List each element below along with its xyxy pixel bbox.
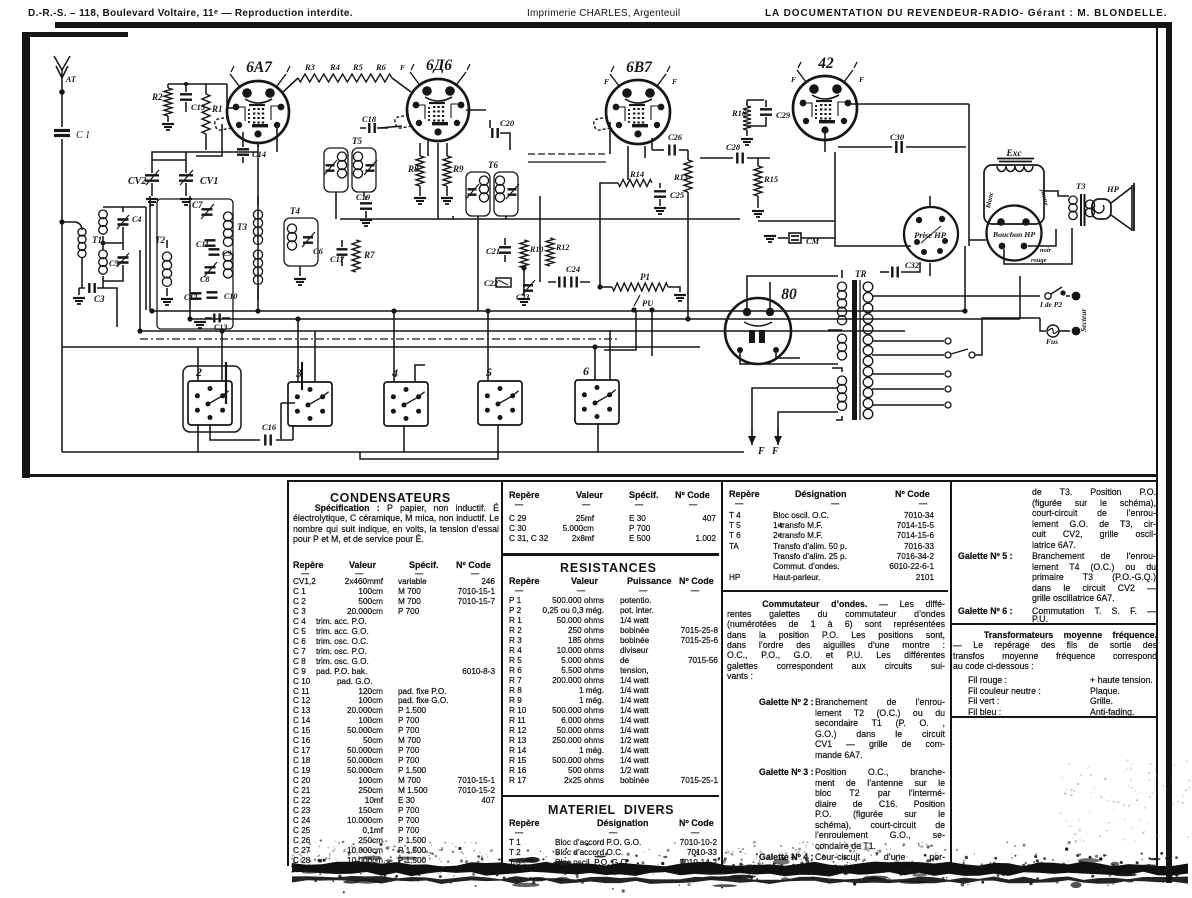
switch voltage selector (951, 318, 1040, 358)
wire R2/C15/R1 top (168, 84, 227, 150)
capacitor C10 (207, 292, 238, 301)
potentiometer P1 (600, 272, 686, 306)
wire wafer bottoms (198, 423, 598, 459)
variable capacitor CV2 (128, 160, 159, 205)
capacitor C16 (262, 422, 277, 446)
MATERIEL DIVERS table (548, 803, 674, 817)
wire 80 filament (740, 353, 838, 364)
capacitor C24 (548, 264, 590, 288)
Galette 4 (759, 852, 814, 862)
col2 rules (503, 553, 719, 556)
col3 rule (723, 590, 948, 592)
resistor R14 (618, 169, 652, 187)
wire tube pin drops (277, 122, 930, 311)
wire 80 plates (747, 276, 838, 308)
capacitor C7 (192, 200, 214, 219)
coil T2 (155, 235, 173, 305)
capacitor C5 (103, 243, 129, 281)
wire Prise HP top (905, 196, 930, 246)
wire CV drops (152, 152, 258, 160)
CONDENSATEURS table (330, 491, 451, 505)
capacitor C30 (838, 132, 966, 153)
field coil Exc (984, 149, 1050, 224)
Galette 2 (759, 697, 814, 707)
Galette 6 (958, 606, 1013, 616)
capacitor C8 (200, 262, 217, 284)
capacitor C1 (54, 92, 90, 452)
capacitor C6 (294, 232, 324, 285)
node F F arrows (748, 428, 782, 457)
switch wafer 4 (384, 366, 428, 426)
coil T3 (223, 212, 247, 278)
capacitor C3 (73, 283, 117, 327)
wire 6D6 grid cap to C18 (380, 126, 402, 128)
frame lines (55, 22, 1168, 29)
Galette 4 continuation (1032, 487, 1156, 497)
capacitor C17 (330, 240, 348, 266)
Commutateur d'ondes paragraph (727, 599, 945, 609)
header strip (28, 8, 353, 19)
wire AVC bus 1 (150, 310, 965, 312)
resistor R7 (352, 240, 375, 272)
wire 6A7 grid cap drop (196, 124, 222, 156)
table column borders (287, 482, 289, 866)
scan noise band bottom (292, 862, 1188, 877)
resistor R2 (151, 84, 174, 130)
schematic SVG placeholder (0, 0, 1192, 480)
tube 42 (791, 55, 864, 140)
speaker plug Bouchon HP (987, 206, 1042, 261)
capacitor C21 (486, 238, 511, 262)
MF transformer T6 (466, 160, 519, 216)
tube 80 (725, 286, 797, 364)
wire bus 3 (140, 330, 905, 332)
wire TA taps (872, 296, 1040, 405)
wire dashed bus (140, 338, 620, 340)
oscillator box T3 (157, 199, 233, 329)
resistor R15 (752, 158, 779, 217)
resistor R12 (546, 238, 569, 266)
coil T1 secondary (99, 207, 146, 310)
resistor R9 (441, 143, 464, 204)
resistor R16 (731, 100, 753, 145)
switch wafer 6 (575, 364, 619, 424)
MF transformer T5 (324, 136, 377, 192)
ground detector (518, 268, 530, 305)
wire rouge (969, 228, 1072, 264)
resistor chain R3 R4 R5 R6 (283, 62, 411, 92)
wire bus 4 (62, 346, 700, 348)
resistor R1 (202, 84, 223, 134)
resistor R8 (407, 143, 426, 204)
speaker HP (1092, 183, 1134, 231)
capacitor C15 (180, 84, 206, 112)
transformer TA (828, 269, 873, 420)
capacitor C11 (196, 240, 216, 249)
wire 6B7 grid lines (528, 153, 606, 155)
switch I de P2 (1039, 287, 1080, 309)
wire wafer 2 loop (183, 366, 241, 432)
capacitor C26 (652, 132, 688, 156)
wire MF drops (336, 192, 506, 219)
wire wafer 3 lead (281, 403, 295, 439)
Galette 3 (759, 767, 814, 777)
tube 6A7 (215, 59, 290, 143)
wire 6A7 cathode drop (257, 143, 259, 311)
node tap circles (945, 338, 951, 408)
wire wafer 2 lead (225, 362, 227, 404)
switch wafer 3 (288, 366, 332, 426)
wire AVC bus 2 (190, 318, 1020, 320)
capacitor C25 (654, 183, 685, 214)
RESISTANCES table (560, 561, 657, 575)
tube 6D6 (395, 57, 470, 141)
node PU (631, 298, 654, 313)
capacitor C12 (184, 293, 202, 302)
wire filament F F (752, 388, 838, 428)
T4-HP table (729, 488, 944, 490)
tube 6B7 (594, 59, 677, 144)
capacitor C23 (516, 280, 535, 302)
capacitor C22 (484, 278, 511, 288)
transformer T3 (1044, 181, 1094, 226)
switch wafer 5 (478, 365, 522, 425)
capacitor C32 (880, 260, 920, 278)
node junction dots (137, 265, 967, 349)
variable capacitor CV1 (179, 160, 218, 205)
socket Prise HP (904, 207, 958, 261)
antenna AT (54, 56, 77, 95)
wire wafer leads (198, 310, 652, 382)
capacitor C19 (356, 192, 372, 226)
coil T4 (284, 206, 318, 266)
wire bus drops (140, 196, 1020, 331)
fuse Fus (1040, 318, 1080, 346)
capacitor C13 (194, 314, 230, 333)
coil osc secondary (253, 196, 262, 300)
wire 6A7 left pin (227, 84, 236, 108)
capacitor C14 (237, 132, 266, 163)
capacitor C20 (466, 110, 515, 150)
resistor R10 (520, 240, 543, 268)
capacitor C28 (700, 142, 770, 164)
coil T1 (59, 219, 102, 288)
capacitor CM (764, 233, 835, 246)
switch wafer 2 (188, 365, 232, 425)
capacitor C9 (209, 249, 232, 258)
Transformateurs MF paragraph (953, 630, 1157, 640)
C29-C32 table (509, 489, 715, 491)
wire bus y220 (340, 218, 740, 220)
capacitor C29 (747, 100, 791, 126)
wire 42 cathode loop (758, 152, 905, 246)
wire 42 plate B+ (851, 104, 969, 246)
wire 6B7 plate to C26 (600, 138, 652, 221)
col4 rules (952, 623, 1156, 625)
Galette 5 (958, 551, 1013, 561)
wire ground bus bottom (62, 451, 744, 453)
capacitor C18 (360, 114, 388, 133)
capacitor C4 (103, 207, 141, 243)
resistor R13 (673, 150, 692, 221)
